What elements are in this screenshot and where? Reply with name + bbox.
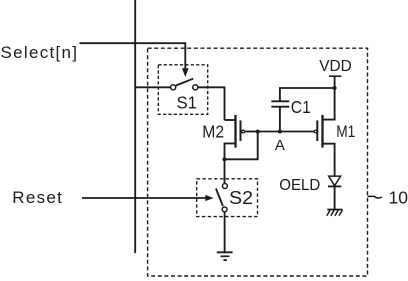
svg-text:OELD: OELD [279,177,320,194]
svg-text:S1: S1 [177,93,198,113]
svg-text:C1: C1 [291,97,311,117]
svg-text:A: A [275,137,285,154]
svg-text:M2: M2 [202,121,224,141]
svg-text:S2: S2 [229,187,253,208]
svg-text:M1: M1 [336,122,355,141]
svg-text:Reset: Reset [12,188,62,207]
svg-text:10: 10 [389,188,408,208]
svg-text:VDD: VDD [319,58,352,75]
